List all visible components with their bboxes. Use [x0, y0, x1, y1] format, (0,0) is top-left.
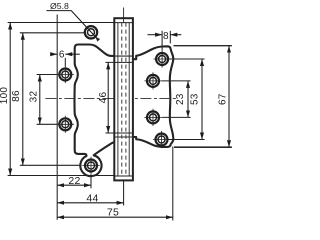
wire: extension line y=74.5 (hole L2, dim 32): [37, 74, 57, 76]
hole R3 (153,117.4): [144, 109, 161, 126]
hole L4 (91,165.5): [82, 157, 99, 174]
dimension 32: [28, 75, 40, 125]
wire: vertical extension x=170.3 (right edge, dim 8): [169, 31, 171, 44]
svg-text:32: 32: [28, 91, 39, 103]
hole L1 countersunk (91,32.3): [85, 26, 97, 38]
wire: extension y=80.9 from hole R2 (dim 23): [162, 80, 191, 82]
wire: extension line y=32.8 (hole L1 center, dim 86): [20, 32, 84, 34]
dimension 46: [98, 62, 109, 133]
wire: vertical extension x=162.1 (hole R1, dim 8): [161, 31, 163, 51]
hole R2 (153,80.9): [144, 72, 161, 89]
wire: vertical extension x=91 (hole L4, dim 22): [90, 174, 92, 188]
wire: extension y=117.4 from hole R3 (dim 23): [162, 116, 191, 118]
dimension 67: [218, 46, 230, 148]
svg-text:6: 6: [59, 50, 65, 61]
wire: extension y=45.7 right leaf top edge (dim 67): [174, 45, 232, 47]
wire: extension y=59 from hole R1 (dim 53): [169, 58, 205, 60]
left leaf outline: [74, 45, 114, 177]
svg-text:75: 75: [107, 206, 119, 218]
dimension 53: [189, 59, 202, 140]
leader line for diameter 5.8: [71, 10, 96, 37]
hinge pin hidden line right: [125, 23, 127, 176]
wire: extension line y=165.3 (hole L4 center, dim 86): [20, 164, 82, 166]
wire: horizontal centerline y=98.6: [45, 98, 177, 100]
dimension 6: [50, 50, 80, 61]
hole R1 (162.1,59): [154, 50, 171, 67]
knuckle joint line y=133 (dim 46 bottom): [105, 132, 132, 134]
dimension 44: [57, 193, 123, 205]
knuckle inner line left: [117, 23, 119, 176]
svg-text:Ø5.8: Ø5.8: [50, 1, 69, 11]
knuckle cap line bottom: [114, 175, 133, 177]
dimension 23: [175, 81, 188, 118]
knuckle joint line y=62.4 (dim 46 top): [105, 61, 132, 63]
knuckle joint line y=56.1: [114, 55, 133, 57]
knuckle centerline below (dim 44 extension): [123, 180, 125, 205]
dimension 86: [11, 33, 23, 166]
label diameter 5.8: [46, 1, 71, 11]
dimension 75: [57, 206, 173, 218]
wire: vertical extension x=172.8 (right leaf edge, dim 75): [172, 147, 174, 221]
svg-text:23: 23: [175, 93, 186, 105]
wire: extension line y=22.5 (knuckle top, dim 100): [8, 22, 133, 24]
svg-text:22: 22: [68, 175, 80, 187]
wire: extension line y=175.5 (knuckle bottom, dim 100): [8, 175, 133, 177]
dimension 22: [57, 175, 91, 187]
hole L2 (65.3,74.5): [57, 66, 74, 83]
knuckle inner line right: [128, 23, 130, 176]
wire: extension y=147.2 right leaf bottom edge (dim 67): [174, 146, 232, 148]
svg-text:46: 46: [98, 92, 109, 104]
svg-text:86: 86: [11, 90, 22, 102]
wire: extension line y=124.3 (hole L3, dim 32): [37, 123, 57, 125]
svg-text:44: 44: [86, 193, 98, 205]
wire: extension y=139.5 from hole R4 (dim 53): [168, 139, 204, 141]
hole R4 (161.5,139.5): [153, 131, 170, 148]
knuckle cap line top: [114, 22, 133, 24]
hole L3 (65.3,124.3): [57, 116, 74, 133]
dimension 8: [148, 31, 182, 42]
hinge pin hidden line left: [121, 23, 123, 176]
wire: vertical extension x=65.3 (hole column, dim 6): [64, 58, 66, 66]
wire: vertical extension line x=57.2 (left leaf edge): [56, 15, 58, 220]
svg-text:8: 8: [163, 31, 169, 42]
dimension 100: [0, 23, 10, 176]
right leaf outline: [133, 46, 173, 147]
svg-text:100: 100: [0, 87, 10, 105]
knuckle joint line y=137: [114, 136, 133, 138]
knuckle centerline above: [123, 8, 125, 23]
svg-text:67: 67: [218, 93, 229, 105]
knuckle barrel: [105, 8, 133, 206]
svg-text:53: 53: [189, 93, 200, 105]
